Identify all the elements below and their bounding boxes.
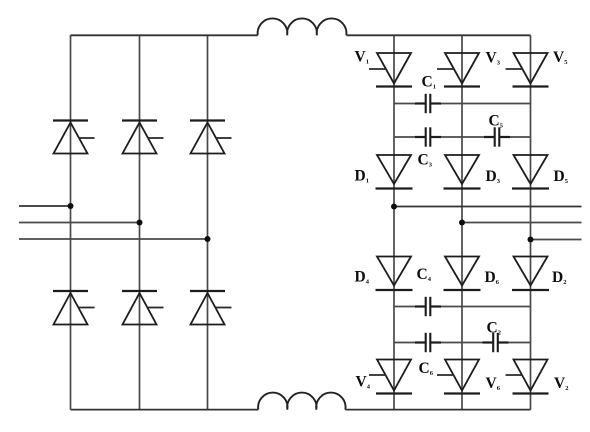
diode D1	[376, 155, 413, 189]
wire top bus right section	[346, 34, 530, 36]
junction node output V / right leg2	[459, 220, 465, 226]
junction node phase c / leg3	[205, 236, 211, 242]
wire right bridge leg 1 (phase U)	[393, 35, 395, 409]
capacitor C6	[415, 333, 441, 352]
junction node output W / right leg3	[528, 237, 534, 243]
diode D3	[444, 155, 481, 189]
wire output phase W	[531, 239, 582, 241]
wire left bridge leg 1 (phase a)	[70, 35, 72, 409]
junction node phase b / leg2	[137, 220, 143, 226]
thyristor left top 2	[122, 121, 164, 154]
wire bottom bus left section	[71, 409, 259, 411]
wire right bridge leg 3 (phase W)	[530, 35, 532, 409]
capacitor C3	[415, 127, 441, 146]
wire capacitor row y=137.0	[394, 136, 531, 138]
capacitor C1	[415, 94, 441, 113]
wire left bridge leg 2 (phase b)	[139, 35, 141, 409]
capacitor C2	[483, 333, 509, 352]
wire capacitor row y=342.5	[394, 342, 531, 344]
junction node phase a / leg1	[68, 203, 74, 209]
thyristor V4	[369, 360, 412, 394]
wire right bridge leg 2 (phase V)	[461, 35, 463, 409]
diode D2	[512, 257, 549, 291]
thyristor left top 1	[53, 121, 95, 154]
wire bottom bus right section	[345, 409, 530, 411]
inductor Ld bottom	[258, 393, 345, 410]
wire output phase U	[394, 206, 582, 208]
thyristor V6	[437, 360, 480, 394]
inductor Ld top	[258, 18, 347, 35]
wire phase input b	[19, 222, 140, 224]
thyristor left bottom 3	[190, 291, 232, 325]
capacitor C5	[484, 127, 510, 146]
thyristor V2	[506, 360, 549, 394]
wire capacitor row y=103.5	[394, 103, 531, 105]
thyristor V1	[369, 53, 412, 87]
diode D4	[376, 257, 413, 291]
thyristor left top 3	[190, 121, 232, 154]
wire capacitor row y=306.5	[394, 306, 531, 308]
thyristor V3	[437, 53, 480, 87]
wire left bridge leg 3 (phase c)	[207, 35, 209, 409]
wire phase input a	[19, 205, 71, 207]
diode D5	[512, 155, 549, 189]
thyristor left bottom 2	[122, 291, 164, 325]
junction node output U / right leg1	[391, 204, 397, 210]
wire output phase V	[462, 222, 582, 224]
thyristor V5	[506, 53, 549, 87]
diode D6	[444, 257, 481, 291]
capacitor C4	[415, 297, 441, 316]
thyristor left bottom 1	[53, 291, 95, 325]
wire phase input c	[19, 238, 208, 240]
wire top bus left section	[71, 34, 258, 36]
